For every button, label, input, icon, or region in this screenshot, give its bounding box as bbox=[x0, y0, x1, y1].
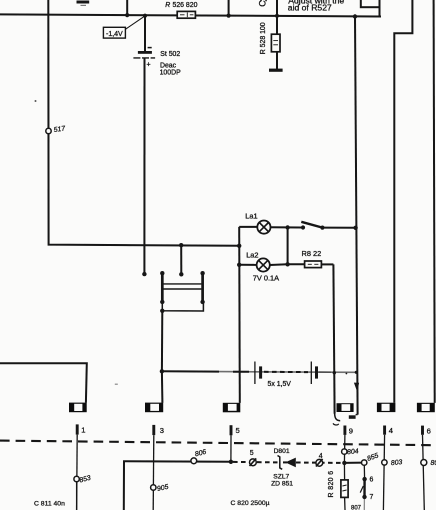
svg-text:100DP: 100DP bbox=[160, 70, 181, 77]
svg-text:+: + bbox=[147, 62, 151, 69]
svg-text:80: 80 bbox=[431, 460, 436, 467]
svg-text:807: 807 bbox=[351, 506, 362, 510]
svg-text:526 820: 526 820 bbox=[173, 2, 198, 9]
svg-text:C: C bbox=[258, 0, 268, 7]
svg-text:5x 1,5V: 5x 1,5V bbox=[268, 381, 292, 388]
svg-text:La1: La1 bbox=[245, 211, 257, 220]
svg-text:Deac: Deac bbox=[160, 62, 177, 69]
svg-text:804: 804 bbox=[347, 448, 359, 456]
svg-text:St 502: St 502 bbox=[160, 51, 180, 58]
svg-text:9: 9 bbox=[349, 426, 353, 435]
svg-text:R8 22: R8 22 bbox=[302, 249, 322, 258]
svg-text:1: 1 bbox=[81, 426, 85, 435]
svg-text:6: 6 bbox=[427, 426, 431, 435]
svg-text:7: 7 bbox=[370, 494, 374, 501]
svg-text:5: 5 bbox=[236, 426, 240, 435]
svg-text:-1,4V: -1,4V bbox=[106, 31, 123, 38]
svg-text:5: 5 bbox=[250, 450, 254, 457]
svg-text:C 820 2500µ: C 820 2500µ bbox=[231, 500, 270, 507]
svg-text:aid of R527: aid of R527 bbox=[288, 3, 332, 13]
svg-text:4: 4 bbox=[319, 453, 323, 460]
svg-text:7V 0.1A: 7V 0.1A bbox=[253, 273, 279, 282]
svg-text:R 528 100: R 528 100 bbox=[260, 22, 267, 54]
svg-text:6: 6 bbox=[370, 477, 374, 484]
svg-text:La2: La2 bbox=[246, 250, 258, 259]
svg-text:803: 803 bbox=[391, 459, 403, 467]
svg-text:D801: D801 bbox=[274, 448, 290, 455]
svg-text:3: 3 bbox=[160, 426, 164, 435]
svg-text:4: 4 bbox=[389, 426, 393, 435]
svg-text:R: R bbox=[165, 2, 170, 9]
svg-text:ZD 851: ZD 851 bbox=[271, 480, 293, 487]
svg-text:R 820 6: R 820 6 bbox=[328, 471, 335, 498]
svg-text:C 811 40n: C 811 40n bbox=[34, 501, 65, 508]
